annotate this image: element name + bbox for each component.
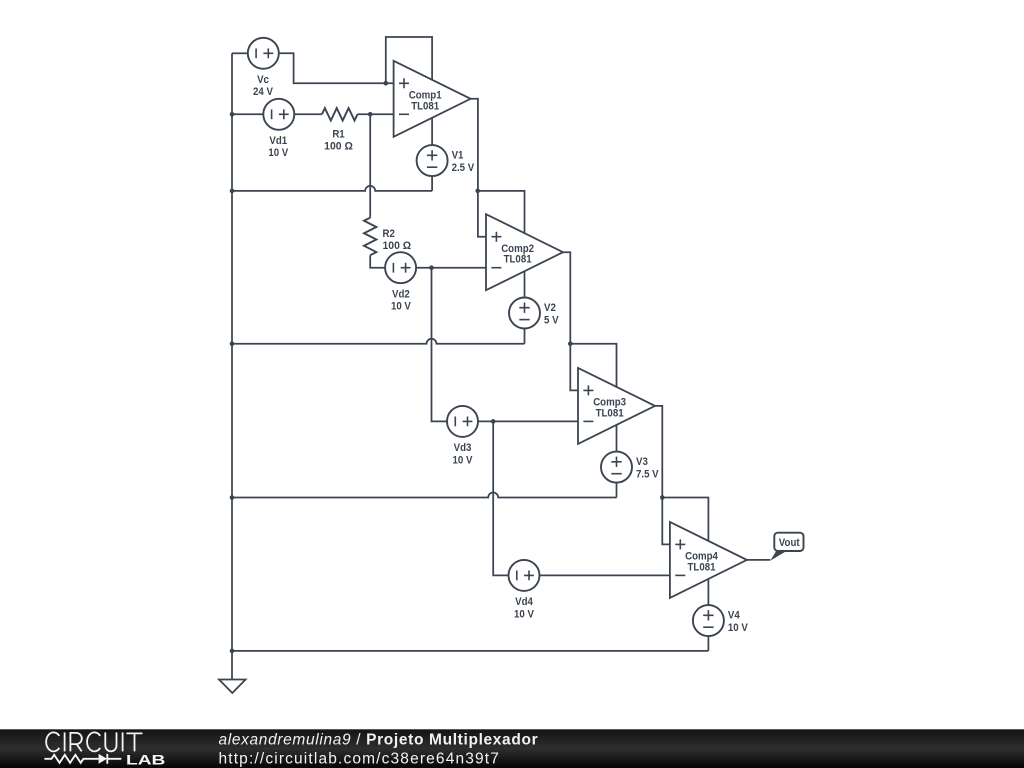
svg-text:TL081: TL081	[596, 407, 624, 419]
svg-text:24 V: 24 V	[253, 86, 273, 98]
svg-text:TL081: TL081	[504, 254, 532, 266]
svg-text:Vd4: Vd4	[515, 596, 534, 608]
svg-text:100 Ω: 100 Ω	[324, 140, 353, 152]
svg-text:2.5 V: 2.5 V	[452, 162, 475, 174]
svg-text:10 V: 10 V	[391, 301, 411, 313]
svg-text:TL081: TL081	[688, 561, 716, 573]
svg-text:5 V: 5 V	[544, 315, 559, 327]
svg-text:10 V: 10 V	[728, 622, 748, 634]
svg-text:10 V: 10 V	[453, 454, 473, 466]
svg-text:V2: V2	[544, 302, 556, 314]
svg-text:http://circuitlab.com/c38ere64: http://circuitlab.com/c38ere64n39t7	[219, 751, 501, 768]
svg-text:LAB: LAB	[126, 753, 165, 768]
svg-text:7.5 V: 7.5 V	[636, 469, 659, 481]
svg-text:Vd2: Vd2	[392, 288, 410, 300]
svg-text:Vd3: Vd3	[454, 442, 472, 454]
svg-text:V3: V3	[636, 456, 648, 468]
svg-text:R1: R1	[332, 129, 344, 141]
svg-text:V1: V1	[452, 150, 464, 162]
svg-text:10 V: 10 V	[268, 147, 288, 159]
svg-text:Vc: Vc	[257, 74, 269, 86]
svg-text:100 Ω: 100 Ω	[383, 240, 412, 252]
svg-text:V4: V4	[728, 610, 741, 622]
svg-text:R2: R2	[383, 228, 395, 240]
svg-text:10 V: 10 V	[514, 608, 534, 620]
svg-text:TL081: TL081	[411, 100, 439, 112]
svg-text:alexandremulina9 / Projeto Mul: alexandremulina9 / Projeto Multiplexador	[219, 731, 539, 748]
svg-text:Vd1: Vd1	[269, 135, 287, 147]
svg-text:Vout: Vout	[779, 537, 800, 549]
